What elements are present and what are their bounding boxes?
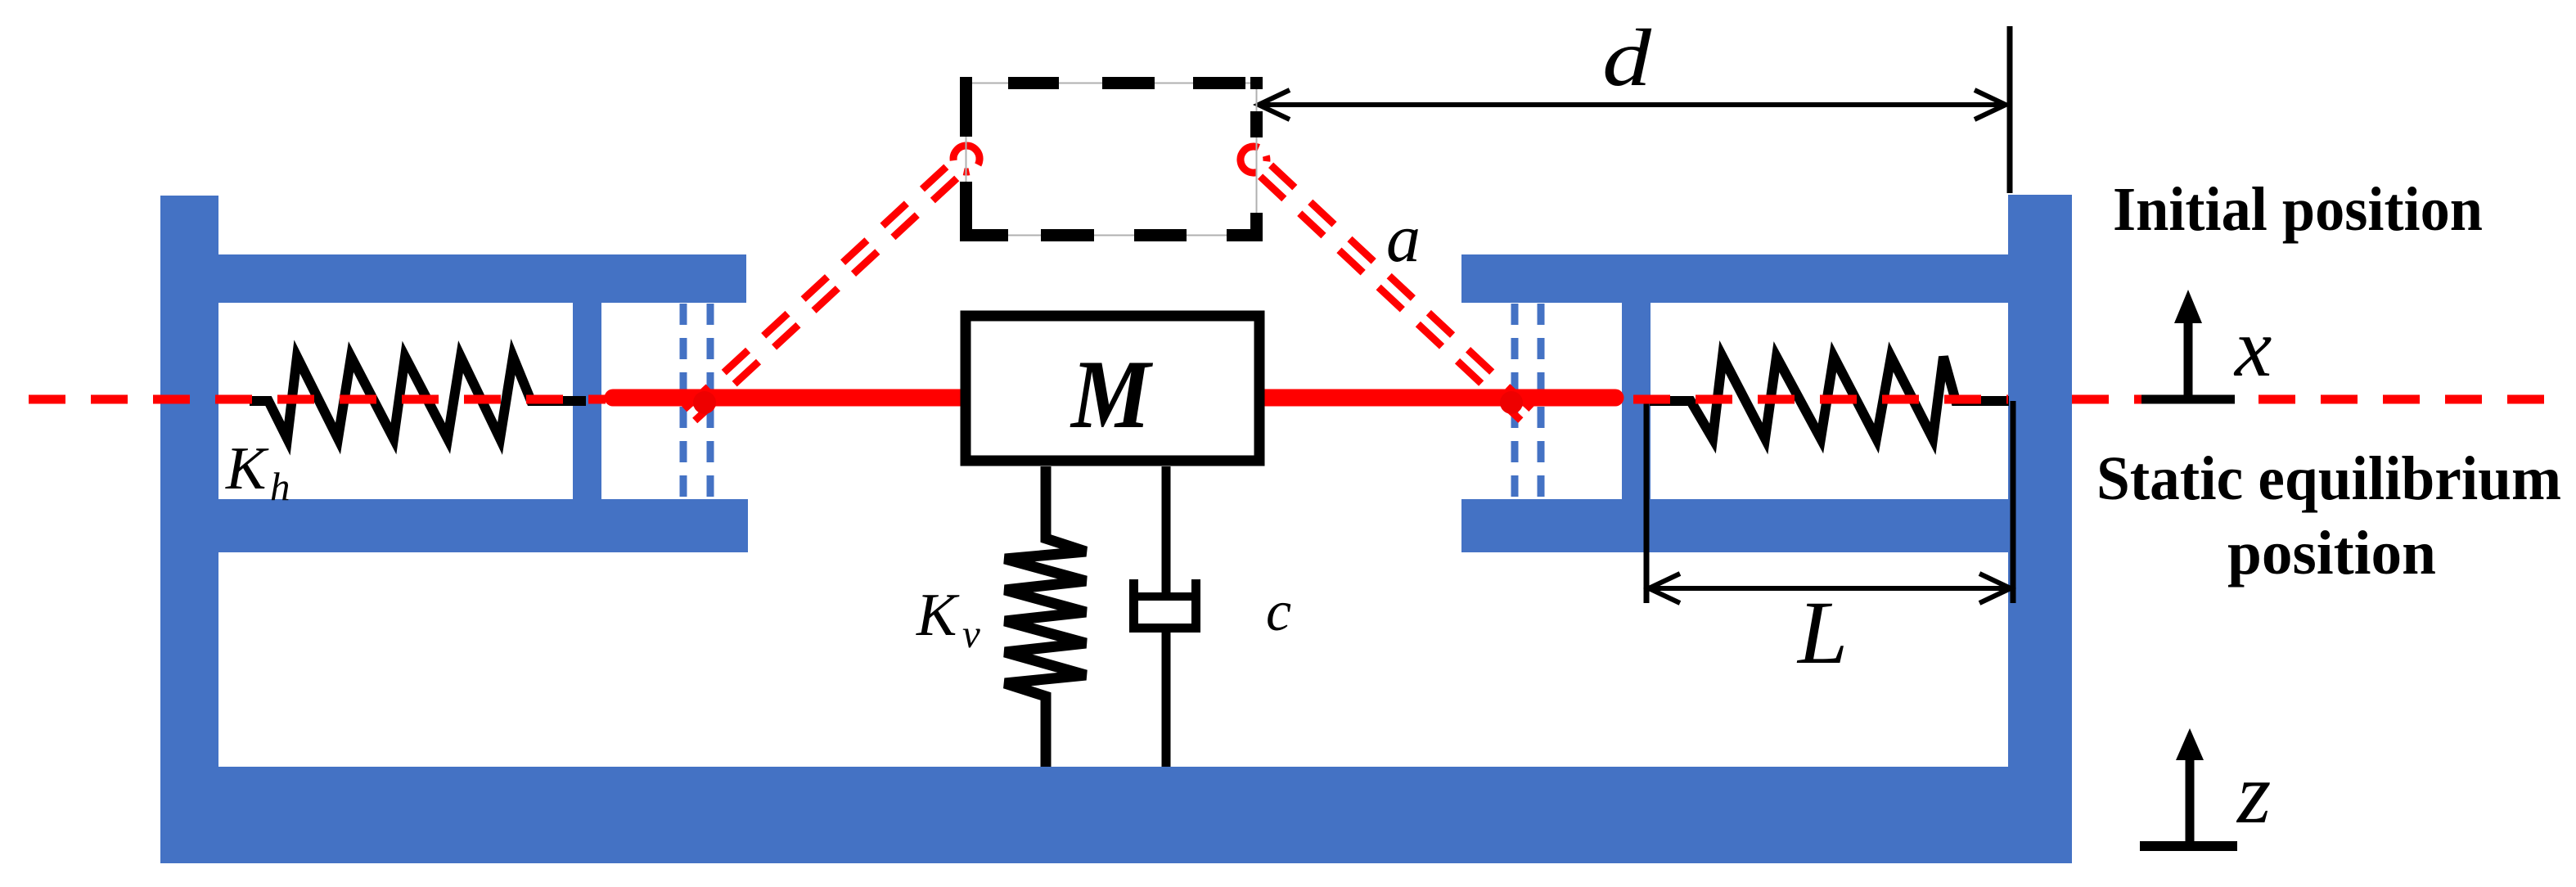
dimension L arrow line	[1649, 586, 2011, 591]
spring Kh (left horizontal spring)	[250, 357, 586, 439]
red connecting rod right	[1264, 389, 1615, 407]
frame left inner bottom bar	[218, 499, 748, 552]
svg-text:a: a	[1386, 200, 1421, 277]
x axis shaft	[2184, 321, 2193, 399]
red pivot dot left	[693, 391, 716, 414]
svg-text:z: z	[2236, 745, 2271, 841]
red connecting rod left	[613, 389, 962, 407]
frame left outer vertical bar	[160, 196, 218, 863]
dashed box left edge	[960, 77, 972, 241]
dimension L right extension line	[2011, 401, 2016, 603]
x axis arrowhead	[2174, 290, 2202, 323]
damper c piston plate	[1130, 592, 1196, 601]
red pivot dot right	[1500, 391, 1523, 414]
frame right outer vertical bar	[2008, 195, 2072, 863]
x axis base line	[2141, 395, 2235, 404]
z axis base line	[2140, 841, 2237, 851]
red dashed centerline right outside segment	[2072, 395, 2556, 404]
z axis shaft	[2186, 758, 2195, 846]
dimension d right arrowhead	[1975, 90, 2006, 119]
frame left inner vertical bar	[573, 303, 601, 499]
dashed box initial mass position top edge	[960, 77, 1263, 89]
spring right horizontal	[1650, 357, 2009, 439]
dimension L left extension line	[1644, 398, 1650, 603]
dimension d left arrowhead	[1259, 90, 1290, 119]
mass M box	[966, 316, 1259, 461]
svg-text:c: c	[1266, 580, 1291, 643]
svg-text:position: position	[2227, 519, 2436, 588]
damper c rod upper	[1162, 466, 1171, 600]
z axis arrowhead	[2176, 728, 2204, 760]
frame right inner bottom bar	[1461, 499, 2008, 552]
red dashed centerline left segment	[29, 395, 606, 404]
svg-text:v: v	[962, 611, 980, 656]
left slider bearing dashed line 2	[707, 304, 714, 499]
spring Kv (vertical)	[1005, 466, 1086, 767]
svg-text:K: K	[916, 582, 960, 649]
dashed box bottom edge	[960, 229, 1263, 241]
red dashed link right (initial position linkage)	[1241, 146, 1532, 421]
svg-text:K: K	[225, 435, 269, 502]
svg-text:x: x	[2233, 302, 2272, 394]
dimension L left arrowhead	[1649, 574, 1680, 603]
svg-text:Static equilibrium: Static equilibrium	[2096, 444, 2561, 513]
svg-text:d: d	[1602, 12, 1652, 103]
dimension d vertical reference line	[2007, 26, 2013, 193]
dashed box right edge	[1250, 77, 1263, 241]
frame left top horizontal bar	[218, 254, 746, 303]
frame right inner vertical bar	[1622, 303, 1651, 499]
right slider bearing dashed line 2	[1538, 304, 1545, 499]
dimension d arrow line	[1259, 102, 2006, 107]
right slider bearing dashed line 1	[1511, 304, 1519, 499]
frame right top horizontal bar	[1461, 254, 2008, 303]
svg-text:h: h	[270, 464, 290, 509]
damper c cup	[1134, 579, 1196, 628]
svg-text:L: L	[1796, 583, 1848, 682]
dimension L right arrowhead	[1979, 574, 2011, 603]
dashed box hairline outline	[966, 83, 1257, 236]
red dashed link left (initial position linkage)	[684, 146, 980, 421]
left slider bearing dashed line 1	[680, 304, 687, 499]
svg-text:M: M	[1070, 340, 1154, 448]
frame base bar	[160, 767, 2072, 863]
damper c rod lower	[1162, 630, 1171, 767]
red dashed centerline right chamber segment	[1633, 395, 2008, 404]
svg-text:Initial position: Initial position	[2113, 175, 2483, 244]
